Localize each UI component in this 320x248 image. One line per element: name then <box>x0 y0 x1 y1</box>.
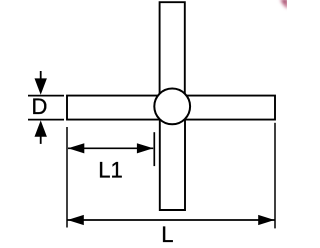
center hub circle <box>154 89 190 125</box>
dimension L1 left arrowhead <box>68 143 84 153</box>
dimension D top extension line <box>28 95 64 97</box>
left extension line <box>66 127 68 228</box>
dimension L left arrowhead <box>68 215 84 225</box>
dimension L1 right arrowhead <box>137 143 153 153</box>
stir bar horizontal body right part <box>184 96 275 120</box>
dimension L right arrowhead <box>258 215 274 225</box>
dimension L1 line <box>68 147 153 149</box>
right extension line <box>274 123 276 229</box>
stir bar horizontal body left part <box>67 96 160 120</box>
stir bar top arm <box>160 2 185 94</box>
stir bar bottom arm <box>160 119 185 210</box>
svg-text:L1: L1 <box>98 158 122 183</box>
dimension D top arrow stem <box>40 71 42 80</box>
dimension D bottom extension line <box>28 119 64 121</box>
dimension D bottom arrow stem <box>40 136 42 144</box>
pink corner blob <box>280 0 289 8</box>
dimension L1 right tick <box>153 132 155 166</box>
svg-text:D: D <box>32 94 48 119</box>
dimension L line <box>68 219 275 221</box>
dimension D top arrowhead <box>35 78 47 94</box>
dimension D bottom arrowhead <box>35 120 47 136</box>
svg-text:L: L <box>161 222 173 247</box>
